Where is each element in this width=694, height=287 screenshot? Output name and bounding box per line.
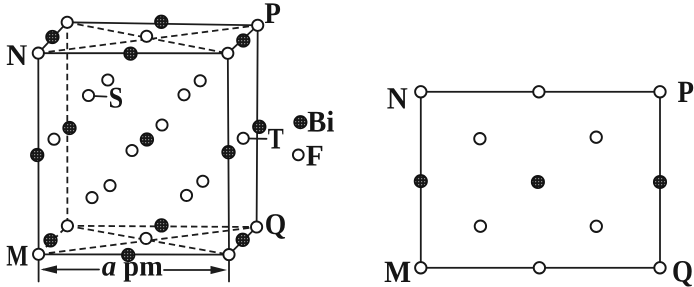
F atom right face centre (T): [238, 133, 249, 144]
F atom interior lower-left (projection): [475, 221, 486, 232]
Bi atom front-top edge midpoint: [124, 47, 137, 60]
svg-text:S: S: [109, 81, 124, 114]
F atom corner Q (projection): [654, 262, 665, 273]
tick from S atom to label S: [94, 95, 107, 98]
dimension line right segment: [164, 269, 214, 271]
Bi atom centre (projection): [532, 176, 544, 188]
bottom face diagonal back-left to front-right: [67, 226, 229, 255]
Bi atom midpoint left edge (projection): [415, 175, 427, 187]
extension line below front-bottom-right corner: [228, 257, 230, 282]
svg-text:F: F: [306, 139, 324, 172]
Bi atom front-left vertical edge midpoint: [31, 149, 44, 162]
top face diagonal N-corner to P: [38, 25, 257, 53]
F atom midpoint bottom edge (projection): [534, 262, 545, 273]
F atom left face centre: [48, 134, 59, 145]
Bi atom back-top edge midpoint: [155, 15, 168, 28]
F atom corner N: [33, 48, 44, 59]
svg-text:N: N: [387, 81, 408, 116]
svg-text:a: a: [102, 250, 117, 282]
F atom tetrahedral site lower-front-left: [86, 192, 97, 203]
F atom interior lower-right (projection): [591, 221, 602, 232]
svg-text:M: M: [6, 240, 28, 273]
top face diagonal back-left to front-right: [67, 22, 228, 53]
F atom tetrahedral site lower-back-right: [197, 176, 208, 187]
Bi atom front-right vertical edge midpoint: [222, 146, 235, 159]
F atom midpoint top edge (projection): [533, 86, 544, 97]
left arrowhead: [41, 265, 58, 273]
F atom tetrahedral site lower-front-right: [181, 190, 192, 201]
F atom back-top-left corner: [62, 17, 73, 28]
F atom tetrahedral site upper-back-left: [102, 74, 113, 85]
Bi atom bottom-right edge midpoint: [236, 234, 249, 247]
top-left edge: [38, 22, 67, 53]
F atom corner P: [252, 20, 263, 31]
projection rectangle MNPQ: [421, 92, 660, 268]
svg-text:Q: Q: [265, 208, 287, 241]
Bi atom top-left edge midpoint: [46, 31, 59, 44]
F atom corner Q: [251, 221, 262, 232]
F atom front face centre: [126, 145, 137, 156]
F atom back-bottom-left corner: [62, 220, 73, 231]
front face outline of unit cell: [38, 53, 229, 255]
Bi atom bottom-left edge midpoint: [44, 234, 57, 247]
bottom-right edge: [229, 227, 257, 255]
svg-text:N: N: [6, 39, 27, 72]
svg-text:M: M: [384, 254, 411, 287]
F atom front-bottom-right corner: [223, 249, 234, 260]
F atom tetrahedral site lower-back-left: [104, 180, 115, 191]
dimension line left segment: [44, 269, 100, 271]
svg-text:Q: Q: [672, 254, 693, 287]
extension line below M: [38, 257, 40, 282]
F atom corner M: [33, 249, 44, 260]
svg-text:pm: pm: [123, 251, 163, 283]
F atom back face centre: [156, 119, 167, 130]
F atom corner N (projection): [415, 86, 426, 97]
svg-text:P: P: [264, 0, 281, 30]
hidden edge: back-left vertical: [66, 22, 68, 226]
legend F atom symbol: [293, 150, 304, 161]
back-right vertical edge: [257, 25, 258, 227]
hidden edge: bottom-left (M to back corner): [39, 226, 68, 255]
svg-text:T: T: [268, 123, 284, 156]
Bi atom back-bottom edge midpoint: [155, 219, 168, 232]
tick from T atom to label T: [249, 138, 267, 140]
F atom bottom face centre: [140, 233, 151, 244]
legend Bi atom symbol: [294, 116, 306, 128]
right arrowhead: [211, 266, 228, 274]
Bi atom front-bottom edge midpoint: [122, 249, 135, 262]
F atom interior upper-right (projection): [591, 132, 602, 143]
F atom tetrahedral site upper-front-left (S): [83, 90, 94, 101]
F atom tetrahedral site upper-back-right: [195, 75, 206, 86]
bottom face diagonal M to Q: [39, 227, 257, 254]
Bi atom back-left vertical edge midpoint: [63, 122, 76, 135]
hidden edge: back-bottom: [67, 226, 256, 227]
top-right edge: [228, 25, 258, 53]
Bi atom body centre: [141, 133, 154, 146]
F atom front-top-right corner: [222, 48, 233, 59]
Bi atom top-right edge midpoint: [237, 34, 250, 47]
svg-text:Bi: Bi: [307, 105, 334, 138]
Bi atom back-right vertical edge midpoint: [253, 121, 266, 134]
svg-text:P: P: [678, 74, 694, 109]
F atom top face centre: [141, 31, 152, 42]
F atom interior upper-left (projection): [474, 133, 485, 144]
F atom corner P (projection): [654, 86, 665, 97]
F atom tetrahedral site upper-front-right: [178, 89, 189, 100]
top-back edge: [67, 22, 258, 25]
Bi atom midpoint right edge (projection): [654, 176, 666, 188]
F atom corner M (projection): [415, 262, 426, 273]
